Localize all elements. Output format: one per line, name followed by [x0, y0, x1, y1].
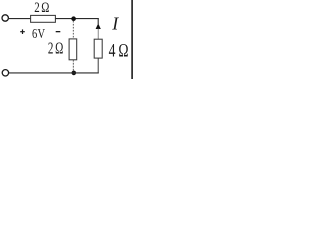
svg-text:2Ω: 2Ω — [48, 40, 63, 59]
node bottom junction dot — [72, 71, 77, 76]
svg-text:I: I — [111, 14, 119, 34]
resistor R middle 2ohm vertical — [69, 39, 77, 60]
wire middle branch lower — [72, 60, 74, 73]
resistor R top 2ohm — [31, 15, 56, 22]
terminal bottom-left — [2, 70, 8, 76]
wire bottom — [9, 72, 99, 74]
node top junction dot — [71, 16, 76, 21]
terminal top-left — [2, 15, 8, 21]
wire arrow tail to resistor — [97, 29, 99, 40]
wire top-left — [9, 18, 31, 20]
svg-text:6V: 6V — [32, 25, 45, 41]
wire right branch corner down — [97, 18, 99, 24]
resistor R right 4ohm vertical — [94, 39, 102, 58]
wire right branch lower — [97, 58, 99, 73]
wire middle branch upper (dotted in scan) — [72, 21, 74, 39]
label + — [20, 31, 25, 32]
current arrow I — [96, 23, 101, 29]
figure right border — [131, 0, 133, 79]
label minus — [56, 31, 61, 32]
wire top-middle — [55, 18, 98, 20]
svg-text:2Ω: 2Ω — [34, 0, 49, 15]
svg-text:4Ω: 4Ω — [109, 39, 132, 61]
